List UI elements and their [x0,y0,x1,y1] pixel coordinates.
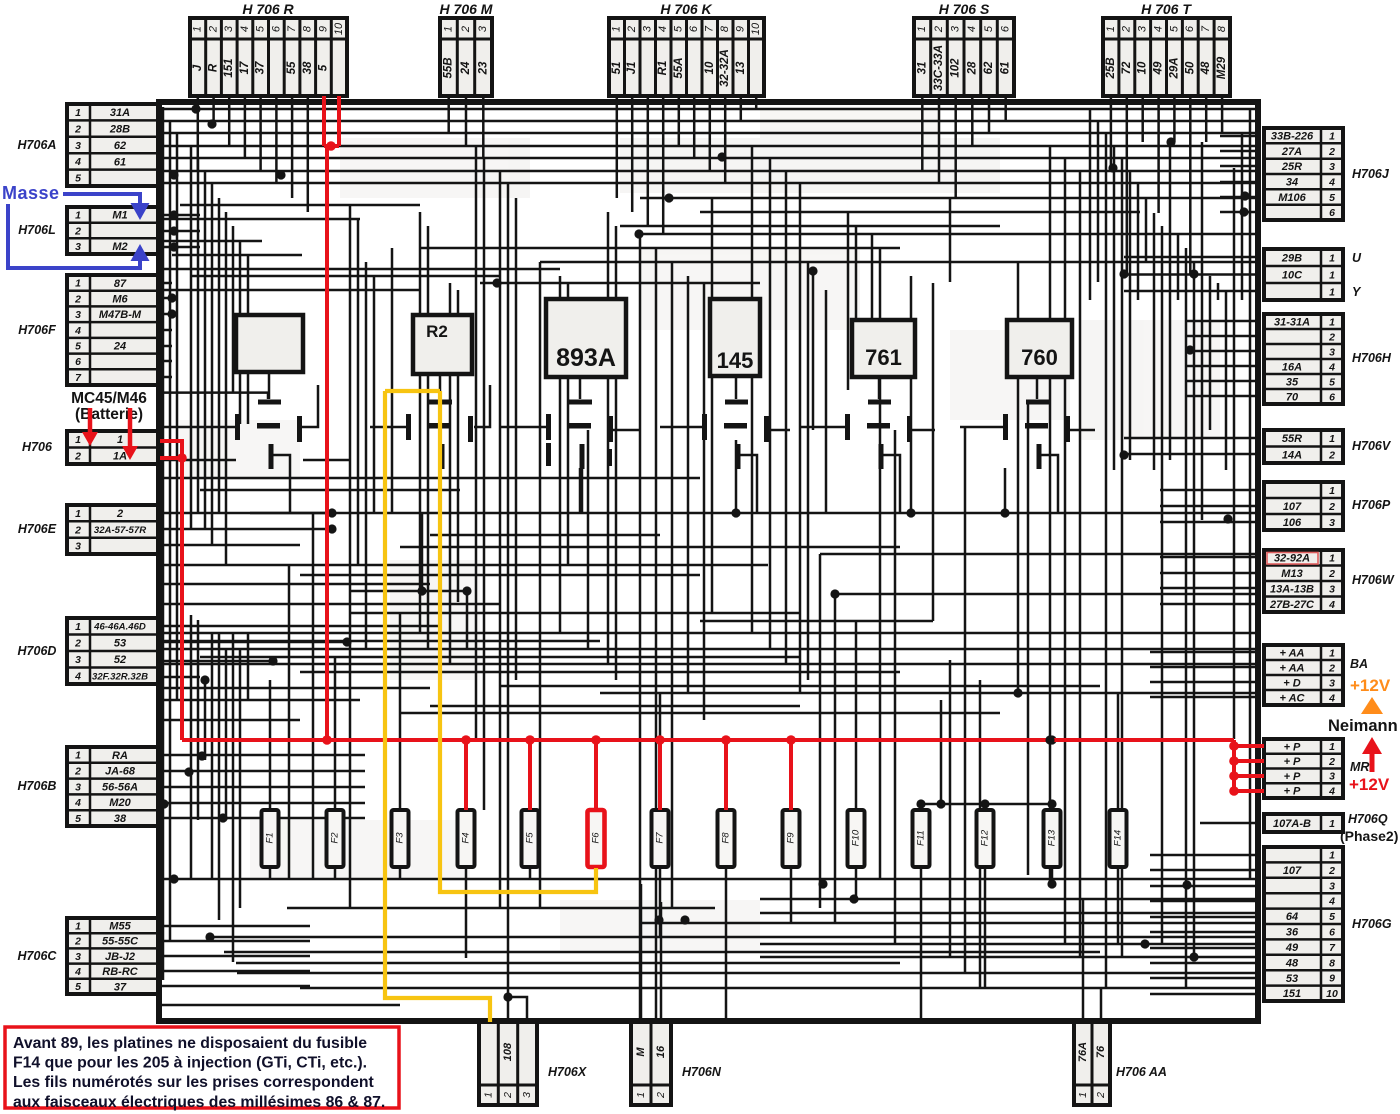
wire [158,985,310,988]
wire [158,459,236,462]
svg-text:1: 1 [75,434,81,446]
wire [457,290,460,602]
wire [162,289,420,292]
wire [812,271,815,430]
wire relay link [735,376,738,399]
wire [790,868,793,880]
svg-text:6: 6 [1329,391,1335,403]
wire [855,880,858,899]
svg-text:35: 35 [1286,376,1299,388]
connector H706C [18,918,158,994]
svg-text:3: 3 [477,25,489,32]
wire [158,376,172,379]
svg-text:H 706 M: H 706 M [440,1,493,17]
wire [162,107,165,980]
svg-text:107: 107 [1283,501,1302,513]
wire [158,719,300,722]
svg-text:1: 1 [1329,286,1335,298]
red stub +P [1234,744,1264,748]
svg-text:+12V: +12V [1350,676,1391,695]
wire [312,513,315,879]
red stub to fuse [789,740,793,810]
wire [269,680,272,810]
wire [799,183,802,693]
svg-text:102: 102 [950,58,962,78]
junction [169,210,178,219]
connector H706V [1264,430,1392,463]
svg-text:F9: F9 [786,832,797,844]
junction [936,799,945,808]
wire [1233,168,1236,739]
junction [342,637,351,646]
wire [639,233,1256,236]
svg-text:H706V: H706V [1352,439,1392,453]
svg-text:55-55C: 55-55C [102,936,139,948]
svg-text:H706X: H706X [548,1065,587,1079]
red stub +P [1234,789,1264,793]
connector H706B [18,747,158,826]
wire [807,262,810,680]
wire relay link [268,372,271,399]
junction [492,278,501,287]
wire [158,177,163,180]
svg-text:H706F: H706F [18,323,56,337]
svg-text:9: 9 [735,26,747,32]
wire [158,160,163,163]
junction [503,992,512,1001]
svg-text:38: 38 [302,61,314,74]
wire [671,262,674,908]
wire [647,96,650,226]
relay 145 [710,299,760,376]
wire [1193,262,1196,957]
wire [1117,868,1120,880]
wire [1105,133,1108,988]
wire [1051,880,1054,884]
svg-text:23: 23 [477,61,489,75]
svg-text:RB-RC: RB-RC [102,966,138,978]
wire [158,297,172,300]
wire [920,804,923,810]
wire [158,970,310,973]
wire [740,96,743,121]
red stub +P [1234,774,1264,778]
wire [158,512,332,515]
svg-text:H 706 T: H 706 T [1141,1,1192,17]
wire [209,936,1256,939]
relay 760 [1007,320,1072,377]
svg-text:1: 1 [75,621,81,633]
fuse F11 [913,810,930,867]
svg-text:13: 13 [735,61,747,74]
wire [1160,603,1257,606]
svg-text:1: 1 [75,107,81,119]
svg-text:+ P: + P [1284,786,1301,798]
svg-text:50: 50 [1184,61,1196,74]
wire [158,182,1256,185]
connector H 706 T [1103,1,1230,96]
svg-text:31A: 31A [110,107,130,119]
wire [1027,404,1030,875]
wire [158,564,768,567]
wire [200,656,800,659]
wire relay link [612,429,640,432]
junction [167,293,176,302]
svg-text:3: 3 [223,25,235,32]
wire [158,157,1256,160]
junction [1047,879,1056,888]
svg-text:37: 37 [114,981,127,993]
yellow wire left [385,391,490,1022]
wire [1249,109,1252,879]
yellow wire [385,389,440,393]
wire [449,283,452,664]
wire [659,693,662,740]
wire [910,276,913,513]
svg-text:3: 3 [642,25,654,32]
svg-text:37: 37 [255,61,267,74]
wire [1150,947,1257,950]
wire [211,183,214,545]
junction red [177,453,187,463]
wire [158,648,1256,651]
relay contacts 761 [845,400,912,470]
svg-text:4: 4 [1328,176,1335,188]
svg-text:2: 2 [1328,450,1335,462]
svg-text:F4: F4 [461,832,472,843]
svg-text:55B: 55B [443,57,455,78]
svg-text:M13: M13 [1281,568,1302,580]
junction [1166,137,1175,146]
wire [239,241,242,424]
wire [447,96,450,133]
wire [224,951,1100,954]
wire [204,680,207,760]
junction [169,170,178,179]
wire [921,803,1052,806]
svg-text:2: 2 [655,1092,667,1099]
wire [421,513,424,591]
junction red [786,735,796,745]
wire [1169,142,1172,460]
svg-text:MC45/M46: MC45/M46 [71,390,147,407]
junction [169,226,178,235]
wire relay link [579,377,582,399]
wire [169,121,172,940]
wire [1241,134,1244,300]
wire [349,205,352,908]
junction [1229,741,1238,750]
svg-text:76A: 76A [1077,1042,1089,1062]
wire [1124,290,1257,293]
svg-text:2: 2 [933,26,945,33]
svg-text:MR: MR [1350,760,1369,774]
wire [158,786,365,789]
junction [916,799,925,808]
wire [158,802,365,805]
junction [1185,345,1194,354]
wire [482,96,485,158]
junction [818,879,827,888]
connector H706D [18,618,158,684]
svg-text:107: 107 [1283,865,1302,877]
red wire from H706R pins 9-10 [322,96,326,146]
svg-text:13A-13B: 13A-13B [1270,584,1314,596]
wire [1150,900,1257,903]
svg-text:17: 17 [239,61,251,74]
junction [1140,939,1149,948]
wire [871,234,874,318]
svg-text:6: 6 [688,25,700,32]
wire [158,170,1256,173]
wire [300,671,900,674]
fuse F4 [458,810,475,867]
svg-text:32-92A: 32-92A [1274,553,1310,565]
fuse F9 [783,810,800,867]
svg-text:1: 1 [1329,849,1335,861]
svg-text:6: 6 [1329,926,1335,938]
wire relay link [1036,377,1039,399]
svg-text:5: 5 [1329,911,1335,923]
wire [640,884,643,1022]
wire [938,96,941,183]
svg-text:2: 2 [460,26,472,33]
svg-text:3: 3 [75,309,81,321]
svg-text:JA-68: JA-68 [105,766,136,778]
wire relay link [500,426,546,429]
junction [218,813,227,822]
red stub to fuse [464,740,468,810]
wire [288,565,291,879]
wire [971,96,974,146]
wire [465,880,468,958]
relay contacts R2 [406,400,473,470]
wire [480,282,760,285]
svg-text:1: 1 [611,26,623,32]
red bus junction [322,735,332,745]
wire [1189,96,1192,274]
svg-text:1: 1 [1329,485,1335,497]
svg-text:4: 4 [1328,896,1335,908]
wire [158,754,365,757]
svg-text:27A: 27A [1281,146,1302,158]
wire [760,898,1256,901]
wire relay link [581,469,584,513]
svg-text:1: 1 [443,26,455,32]
svg-text:H706P: H706P [1352,498,1391,512]
svg-text:4: 4 [657,26,669,32]
wire [1161,226,1164,944]
wire [373,276,376,513]
connector H 706 K [609,1,764,96]
wire relay link [162,393,268,399]
wire [158,214,200,217]
svg-text:6: 6 [1329,207,1335,219]
wire [595,868,598,880]
wire [1205,96,1208,142]
svg-text:5: 5 [75,813,81,825]
wire [724,96,727,183]
svg-text:2: 2 [1328,865,1335,877]
connector H706 [22,431,158,464]
svg-text:24: 24 [460,61,472,75]
connector H706N [631,1022,722,1105]
wire [483,158,486,810]
wire relay link [912,429,935,432]
junction [980,799,989,808]
wire [964,428,967,973]
svg-text:151: 151 [223,58,235,77]
wire relay link [1041,455,1058,513]
svg-text:J: J [192,64,204,71]
wire [1185,248,1188,988]
wire [162,218,360,221]
svg-text:4: 4 [1328,692,1335,704]
wire [725,868,728,880]
svg-text:1: 1 [75,210,81,222]
connector H 706 S [914,1,1014,96]
svg-text:145: 145 [717,348,754,373]
svg-text:2: 2 [74,293,81,305]
svg-text:62: 62 [983,61,995,74]
wire [662,96,665,234]
wire [275,96,278,183]
svg-text:9: 9 [317,26,329,32]
red stub to fuse [724,740,728,810]
wire [693,96,696,158]
svg-text:M20: M20 [109,797,131,809]
wire [357,219,360,565]
red arrow to pin1 [88,408,93,434]
wire [1185,365,1257,368]
wire [988,96,991,133]
connector H706H [1264,314,1392,404]
svg-text:H706E: H706E [18,522,57,536]
junction [1000,508,1009,517]
junction [654,915,663,924]
wire [920,868,923,880]
svg-text:34: 34 [1286,177,1298,189]
svg-text:BA: BA [1350,657,1368,671]
wire [400,546,900,549]
svg-text:3: 3 [1329,771,1335,783]
svg-text:28: 28 [966,61,978,75]
wire [1150,854,1257,857]
svg-text:3: 3 [1137,25,1149,32]
svg-text:1: 1 [1329,741,1335,753]
svg-text:10: 10 [750,22,762,35]
svg-text:F6: F6 [591,832,602,844]
wire [158,360,172,363]
wire [1121,158,1124,957]
wire [211,633,214,880]
junction [159,799,168,808]
wire [1124,437,1257,440]
wire [1117,880,1120,944]
svg-text:2: 2 [1121,26,1133,33]
junction [169,874,178,883]
wire [834,594,837,923]
wire [785,171,788,664]
svg-text:62: 62 [114,140,126,152]
wire [158,282,172,285]
wire [158,246,200,249]
wire [1185,320,1257,323]
svg-text:H 706 S: H 706 S [939,1,990,17]
svg-text:33C-33A: 33C-33A [933,45,945,91]
wire [158,108,1256,111]
wire relay link [273,455,290,513]
relay contacts R1 [235,400,302,470]
svg-text:3: 3 [1329,346,1335,358]
svg-text:M29: M29 [1216,56,1228,79]
relay R2 [413,315,472,374]
svg-text:5: 5 [75,173,81,185]
wire [176,133,179,700]
wire [1150,977,1257,980]
wire relay link [883,455,900,513]
relay 893A [546,299,626,377]
wire [162,240,262,243]
wire [855,621,858,810]
wire [350,612,800,615]
wire [760,956,1256,959]
junction [207,119,216,128]
wire [1117,693,1120,810]
svg-text:1: 1 [192,26,204,32]
svg-text:+ AA: + AA [1280,662,1305,674]
svg-text:JB-J2: JB-J2 [105,951,135,963]
wire [587,430,590,649]
connector H 706 M [440,1,493,96]
wire [1097,121,1100,282]
wire [515,198,518,680]
svg-text:2: 2 [1328,662,1335,674]
wire [158,313,172,316]
junction [906,508,915,517]
svg-text:4: 4 [74,325,81,337]
svg-text:32-32A: 32-32A [719,49,731,87]
wire [600,692,1256,695]
wire [158,770,365,773]
wire [350,590,468,593]
wire [1129,171,1132,460]
wire [400,712,1000,715]
svg-text:5: 5 [673,25,685,32]
wire relay link [474,385,490,427]
junction [1189,952,1198,961]
wire [1209,276,1212,430]
junction [1239,207,1248,216]
wire [1185,395,1257,398]
wire [1150,962,1257,965]
wire [190,615,193,880]
svg-text:55: 55 [286,61,298,74]
wire [162,268,560,271]
blue wire to M2 [8,204,140,268]
wire [1160,505,1257,508]
svg-text:2: 2 [74,638,81,650]
svg-text:1: 1 [1329,818,1335,830]
svg-text:H 706 R: H 706 R [242,1,294,17]
svg-text:Avant 89, les platines ne disp: Avant 89, les platines ne disposaient du… [13,1035,367,1052]
wire [232,633,235,962]
wire [825,290,828,513]
wire [1126,96,1129,274]
wire relay link [768,429,790,432]
red stub to fuse [528,740,532,810]
svg-text:H706W: H706W [1352,573,1395,587]
